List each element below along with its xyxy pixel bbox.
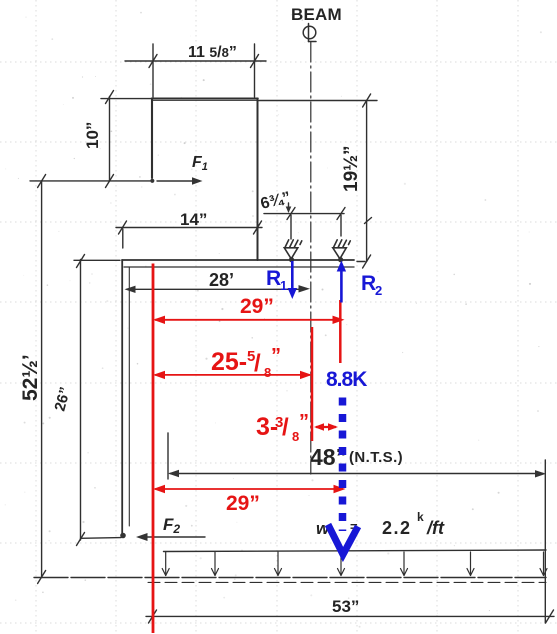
svg-text:/: / [254,350,261,377]
svg-text:R: R [266,267,281,290]
svg-text:1: 1 [280,278,287,293]
svg-text:29”: 29” [226,492,260,515]
svg-text:19½”: 19½” [341,146,362,192]
svg-text:BEAM: BEAM [291,5,342,24]
svg-text:10”: 10” [83,122,102,149]
svg-text:2: 2 [375,283,382,298]
svg-text:28’: 28’ [209,270,234,290]
svg-text:”: ” [299,411,309,433]
svg-text:/: / [282,414,289,441]
svg-text:26”: 26” [51,385,74,413]
svg-text:8: 8 [264,365,271,380]
svg-text:14”: 14” [180,210,207,229]
svg-text:53”: 53” [332,597,359,616]
svg-text:k: k [417,510,424,524]
svg-text:R: R [361,272,376,295]
svg-text:”: ” [271,345,281,367]
svg-text:2.2: 2.2 [382,518,412,538]
svg-text:52½’: 52½’ [19,354,42,401]
svg-text:8.8K: 8.8K [326,368,367,391]
svg-text:25-: 25- [211,348,247,376]
svg-text:F1: F1 [192,154,208,173]
svg-text:29”: 29” [240,295,274,318]
svg-text:F2: F2 [163,515,180,536]
svg-text:(N.T.S.): (N.T.S.) [349,449,403,466]
svg-text:11 5/8”: 11 5/8” [188,44,237,61]
svg-text:/ft: /ft [426,518,445,538]
